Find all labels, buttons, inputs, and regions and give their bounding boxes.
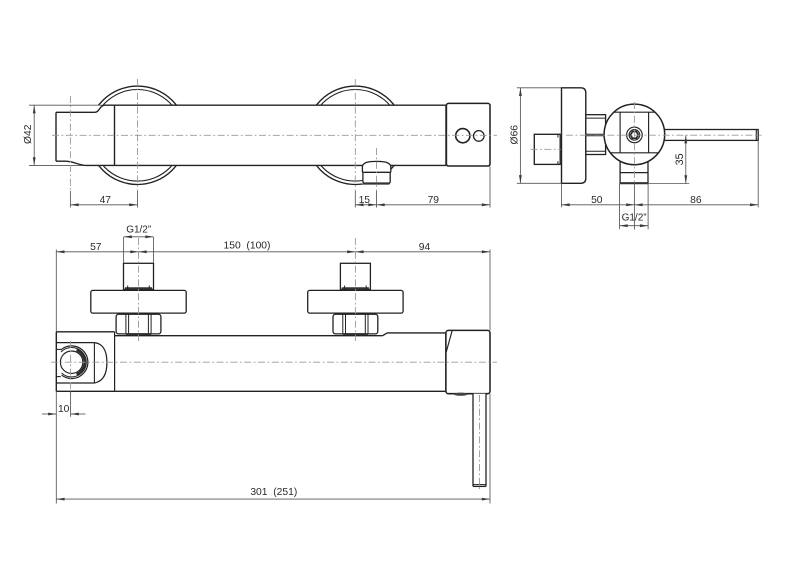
svg-text:47: 47 (100, 195, 112, 206)
svg-text:10: 10 (58, 404, 70, 415)
dimension 86 (634, 140, 758, 207)
svg-text:79: 79 (428, 195, 440, 206)
wall flange (side view) (562, 88, 586, 184)
dimension 10 (42, 404, 86, 416)
shower outlet spout (side view) (620, 158, 649, 183)
centerline valve axis vertical (side view) (633, 102, 635, 230)
cartridge housing inside valve (611, 112, 659, 153)
centerline mounting M1 (138, 238, 140, 341)
dimension 50 (562, 183, 635, 207)
escutcheon E2 (front view, behind bar) (306, 86, 404, 184)
dimension 94 (355, 242, 490, 331)
dimension G1/2 (bottom view) (124, 224, 154, 263)
svg-text:94: 94 (419, 242, 431, 253)
escutcheon E1 (front view, behind bar) (88, 86, 186, 184)
mounting washer M2 (308, 290, 403, 313)
dimension d66 (509, 88, 561, 184)
valve body circle (side view) (604, 104, 665, 165)
svg-text:50: 50 (591, 195, 603, 206)
centerline holder (bottom view) (70, 341, 72, 417)
dimension 57 (56, 242, 138, 332)
svg-text:Ø66: Ø66 (509, 125, 520, 145)
svg-text:G1/2”: G1/2” (622, 213, 647, 224)
centerline lever (bottom view) (479, 395, 481, 490)
centerline valve axis horizontal (side view) (566, 134, 762, 136)
svg-text:Ø42: Ø42 (23, 124, 34, 144)
svg-text:150 (100): 150 (100) (224, 240, 271, 251)
svg-text:15: 15 (359, 195, 371, 206)
mounting pipe M2 (G1/2 connection) (340, 263, 370, 289)
bar body (bottom view) (56, 332, 446, 392)
shower holder C-ring (bottom view) (56, 343, 107, 383)
svg-text:G1/2”: G1/2” (126, 224, 151, 235)
mounting nut M2 (333, 314, 378, 334)
handle screw rings (627, 127, 643, 143)
valve body block (bottom view) (446, 330, 490, 393)
dimension 301 (251) (56, 391, 490, 503)
dimension G1/2 (side view) (620, 183, 649, 229)
dimension 47 (70, 195, 137, 206)
lever handle (side view) (663, 130, 758, 141)
centerline mounting M2 (354, 238, 356, 341)
svg-text:86: 86 (690, 195, 702, 206)
dimension 15 (355, 195, 376, 206)
centerline spout (front view) (376, 148, 378, 208)
wall connector (side view) (534, 134, 560, 164)
dimension 35 (648, 135, 689, 183)
centerline bar axis (bottom view) (51, 361, 497, 363)
mounting nut M1 (116, 314, 161, 334)
temperature stop buttons on block (456, 129, 484, 143)
svg-text:57: 57 (90, 242, 102, 253)
mounting pipe M1 (G1/2 connection) (124, 263, 154, 289)
centerline escutcheon E1 (137, 79, 139, 208)
dimension d42 (23, 105, 35, 165)
spout (front view) (362, 161, 391, 183)
hex nut (side view) (586, 115, 606, 155)
shower bar body (front view) (29, 105, 446, 165)
centerline wall connector (531, 148, 566, 150)
lever pivot (bottom view) (454, 393, 468, 396)
svg-text:301 (251): 301 (251) (250, 487, 297, 498)
hand-shower holder cap (front view left end) (56, 105, 115, 165)
dimension 150 (100) (139, 240, 356, 253)
lever handle (bottom view) (473, 394, 486, 487)
centerline bar axis (front view) (52, 134, 497, 136)
dimension 79 (377, 167, 491, 208)
svg-text:35: 35 (674, 153, 686, 165)
centerline escutcheon E2 (354, 79, 356, 208)
centerline holder (front view) (69, 96, 71, 208)
mounting washer M1 (91, 290, 186, 313)
valve body block (front view right end) (446, 103, 490, 166)
